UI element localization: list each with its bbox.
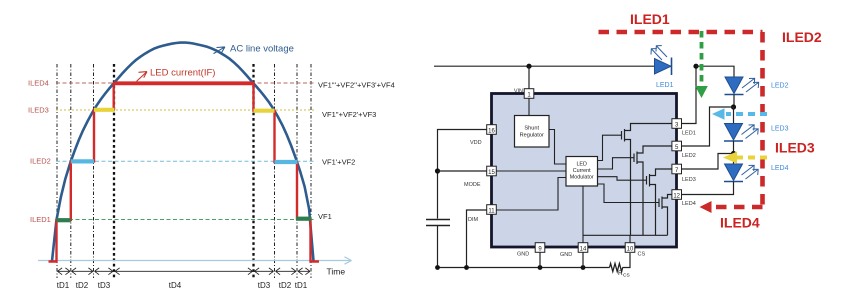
IC body U1 <box>492 94 677 248</box>
ground rail <box>438 253 631 268</box>
svg-text:ILED3: ILED3 <box>775 140 815 156</box>
wire pin5 to node <box>682 107 734 146</box>
node ground pin14 <box>581 265 586 270</box>
wire node to LED4 <box>733 154 735 165</box>
svg-text:ILED4: ILED4 <box>720 215 760 231</box>
LED current modulator box <box>566 157 598 187</box>
pin 14 <box>578 243 588 253</box>
ILED3 cyan dashed arrow <box>726 112 767 116</box>
pin 12 <box>672 190 682 200</box>
shunt regulator box <box>515 116 550 148</box>
LED D3 <box>724 124 759 142</box>
svg-text:tD2: tD2 <box>76 281 89 290</box>
wire DIM branch <box>467 210 488 268</box>
node ground cap <box>435 265 440 270</box>
annotation arrow AC <box>214 47 225 54</box>
pin 9 <box>535 243 545 253</box>
svg-text:ILED4: ILED4 <box>28 79 49 88</box>
grid line tD3-right <box>274 64 276 278</box>
svg-text:AC line voltage: AC line voltage <box>230 44 294 55</box>
svg-text:Modulator: Modulator <box>570 175 594 181</box>
svg-text:VF1'''+VF2''+VF3'+VF4: VF1'''+VF2''+VF3'+VF4 <box>318 80 395 89</box>
wire modulator to pin14 <box>582 186 584 243</box>
wire modulator to Q3 gate <box>598 177 647 181</box>
wire pin7 to node <box>682 154 734 170</box>
node MODE junction <box>435 168 440 173</box>
LED D1 <box>651 46 672 76</box>
step bar cyan right <box>275 160 298 164</box>
svg-text:ILED3: ILED3 <box>28 106 49 115</box>
wire shunt to modulator <box>549 130 566 165</box>
grid line tD2-right <box>296 64 298 278</box>
wire modulator to Q4 gate <box>598 184 660 203</box>
pin 10 <box>625 243 635 253</box>
node LED1 cathode <box>693 64 698 69</box>
LED current staircase <box>49 83 320 261</box>
svg-text:LED4: LED4 <box>771 165 789 172</box>
LED D2 <box>725 77 760 95</box>
svg-text:ILED1: ILED1 <box>630 11 670 27</box>
svg-text:LED2: LED2 <box>771 83 789 90</box>
svg-text:DIM: DIM <box>468 217 479 223</box>
svg-text:ILED2: ILED2 <box>782 29 822 45</box>
svg-text:LED1: LED1 <box>682 131 696 137</box>
wire modulator to Q2 gate <box>598 158 635 169</box>
svg-text:Current: Current <box>573 168 591 174</box>
wire cap to ground <box>437 226 439 268</box>
wire node to LED2 <box>696 66 734 77</box>
ILED1 dashed path <box>599 30 763 35</box>
node LED3 cathode <box>731 151 736 156</box>
svg-text:ILED1: ILED1 <box>30 215 51 224</box>
wire pin1 to shunt <box>528 98 530 116</box>
transistor Q2 <box>634 146 672 235</box>
svg-text:15: 15 <box>488 170 495 176</box>
grid line tD1-left <box>56 64 58 278</box>
x axis <box>38 260 351 262</box>
ILED4 dashed bottom <box>712 205 763 210</box>
wire VIN top <box>434 65 655 67</box>
step bar red top <box>114 81 254 85</box>
pin 1 <box>524 89 534 99</box>
svg-text:tD3: tD3 <box>98 281 111 290</box>
svg-text:LED3: LED3 <box>682 177 696 183</box>
pin 5 <box>672 141 682 151</box>
level line ILED4 <box>56 82 316 84</box>
svg-text:LED1: LED1 <box>656 82 674 89</box>
svg-text:10: 10 <box>627 246 634 252</box>
pin 16 <box>487 125 497 135</box>
svg-text:GND: GND <box>560 252 572 258</box>
transistor Q4 <box>659 195 672 236</box>
svg-text:LED: LED <box>576 162 587 168</box>
svg-text:tD1: tD1 <box>295 281 308 290</box>
node ground dim <box>464 265 469 270</box>
svg-text:tD1: tD1 <box>57 281 70 290</box>
svg-text:tD2: tD2 <box>279 281 292 290</box>
wire dim internal <box>497 178 567 211</box>
transistor Q3 <box>647 169 673 235</box>
svg-text:GND: GND <box>517 252 529 258</box>
wire VDD branch <box>438 130 488 219</box>
svg-text:VIN: VIN <box>514 89 523 95</box>
svg-text:12: 12 <box>673 193 680 199</box>
transistor Q1 <box>622 124 673 236</box>
svg-text:11: 11 <box>488 208 495 214</box>
wire pin3 to LED1 node <box>682 66 697 123</box>
pin 7 <box>672 164 682 174</box>
svg-text:Shunt: Shunt <box>524 126 539 132</box>
step bar yellow left <box>94 108 115 112</box>
svg-text:Time: Time <box>327 267 346 277</box>
svg-text:ILED2: ILED2 <box>30 157 51 166</box>
svg-text:LED current(IF): LED current(IF) <box>150 68 215 79</box>
ILED2 green dashed arrow <box>700 31 704 86</box>
wire LED4 to pin12 <box>682 182 734 195</box>
step bar green left <box>57 218 71 222</box>
capacitor C1 <box>426 220 450 226</box>
step bar yellow right <box>254 109 275 113</box>
svg-text:LED4: LED4 <box>682 201 696 207</box>
grid line tD4-left thick <box>113 64 115 278</box>
pin 15 <box>487 166 497 176</box>
level line ILED1 <box>56 219 316 221</box>
level line ILED3 <box>56 109 316 111</box>
annotation arrow LED current <box>137 72 148 82</box>
step bar cyan left <box>71 159 94 163</box>
node ground pin9 <box>538 265 543 270</box>
svg-text:LED2: LED2 <box>682 153 696 159</box>
ILED4 arrowhead <box>700 201 712 213</box>
level line ILED2 <box>56 160 316 162</box>
grid line tD2-left <box>70 64 72 278</box>
svg-text:VF1'+VF2: VF1'+VF2 <box>322 158 355 167</box>
wire MODE branch <box>438 170 488 172</box>
grid line tD3-left <box>93 64 95 278</box>
svg-text:Regulator: Regulator <box>520 133 544 139</box>
svg-text:tD3: tD3 <box>258 281 271 290</box>
grid line tD4-right thick <box>252 64 254 278</box>
svg-text:CS: CS <box>623 273 630 279</box>
pin 3 <box>672 119 682 129</box>
ILED2 dashed vertical <box>760 32 765 205</box>
svg-text:VF1: VF1 <box>318 212 332 221</box>
svg-text:14: 14 <box>580 246 587 252</box>
node VIN junction <box>526 64 531 69</box>
svg-text:tD4: tD4 <box>169 281 182 290</box>
wire modulator to Q1 gate <box>598 135 622 160</box>
AC line voltage curve <box>52 43 314 262</box>
pin 11 <box>487 205 497 215</box>
ILED4 yellow dashed arrow <box>737 156 767 160</box>
interval arrows <box>58 268 311 275</box>
source rail <box>583 234 668 236</box>
wire LED3 to node <box>733 141 735 154</box>
svg-text:MODE: MODE <box>464 182 481 188</box>
wire mode internal <box>497 170 567 172</box>
wire LED2 to node <box>733 95 735 108</box>
svg-text:LED3: LED3 <box>771 126 789 133</box>
node LED2 cathode <box>731 104 736 109</box>
svg-text:VDD: VDD <box>470 140 482 146</box>
wire pin14 to ground <box>582 253 584 268</box>
step bar green right <box>296 217 312 221</box>
resistor RCS <box>610 264 623 272</box>
svg-text:CS: CS <box>638 252 646 258</box>
svg-text:VF1''+VF2'+VF3: VF1''+VF2'+VF3 <box>322 110 376 119</box>
svg-text:16: 16 <box>488 128 495 134</box>
LED D4 <box>724 164 759 182</box>
grid line tD1-right <box>310 64 312 278</box>
wire pin9 to ground <box>539 253 541 268</box>
wire node to LED3 <box>733 107 735 124</box>
wire VIN drop to pin1 <box>528 66 530 89</box>
